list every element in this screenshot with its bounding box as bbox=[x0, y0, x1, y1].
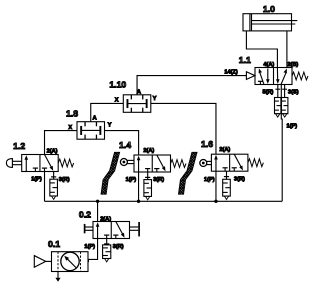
valve 1.6 lever (hatched) bbox=[178, 152, 197, 194]
service unit 0.1 condensate drain bbox=[57, 272, 59, 278]
wire 1.10 Y to valve 1.6 2(A) bbox=[151, 103, 216, 154]
valve 1.1 right-box path 4-5 bbox=[276, 68, 278, 82]
svg-text:3(R): 3(R) bbox=[153, 177, 164, 183]
two-pressure valve 1.10 shuttle piston bbox=[127, 103, 146, 105]
svg-text:1(P): 1(P) bbox=[287, 124, 298, 130]
svg-text:2(A): 2(A) bbox=[100, 217, 111, 223]
valve 1.6 left-box blocked port bbox=[224, 168, 226, 171]
valve 1.2 body bbox=[22, 155, 59, 172]
svg-text:1(P): 1(P) bbox=[126, 177, 137, 183]
valve 1.6 left-box flow arrow bbox=[215, 157, 217, 171]
valve 1.1 pilot 14(Z) bbox=[246, 72, 255, 80]
valve 1.2 right-box exhaust path bbox=[45, 155, 52, 168]
svg-text:3(R): 3(R) bbox=[113, 244, 124, 250]
cylinder 1.0 piston bbox=[249, 14, 251, 31]
svg-text:Y: Y bbox=[108, 122, 112, 128]
silencer valve 1.4 bbox=[147, 172, 149, 180]
silencer 5(R) bbox=[275, 98, 281, 114]
svg-text:1.0: 1.0 bbox=[263, 4, 275, 14]
wire 1.8 A to 1.10 X bbox=[91, 103, 124, 121]
valve 1.1 left-box blocked port 5 bbox=[259, 81, 261, 84]
valve 1.2 return spring bbox=[58, 159, 73, 167]
valve 1.1 body bbox=[255, 68, 292, 85]
valve 1.1 return spring bbox=[292, 72, 308, 80]
two-pressure valve 1.8 valve seats bbox=[84, 122, 86, 127]
wire bottom supply rail bbox=[45, 200, 283, 202]
valve 1.1 left-box path 1-4 bbox=[260, 72, 264, 85]
valve 1.2 right-box blocked port bbox=[44, 168, 46, 171]
two-pressure valve 1.8 shuttle piston bbox=[81, 129, 100, 131]
wire 0.2 port 2(A) riser to rail bbox=[97, 201, 99, 221]
valve 1.6 right-box blocked port bbox=[233, 168, 235, 171]
wire supply to service unit bbox=[46, 260, 52, 262]
service unit 0.1 filter separator (dashed) bbox=[57, 252, 59, 272]
valve 1.4 right-box blocked port bbox=[156, 169, 158, 172]
svg-text:2(A): 2(A) bbox=[219, 147, 230, 153]
svg-text:4(A): 4(A) bbox=[263, 62, 274, 68]
svg-text:1.8: 1.8 bbox=[66, 108, 78, 118]
service unit 0.1 regulator gauge bbox=[61, 252, 79, 270]
valve 1.6 body bbox=[211, 154, 248, 171]
wire supply 1(P) down from valve 1.1 bbox=[280, 85, 283, 202]
valve 1.2 left-box flow arrow bbox=[25, 158, 27, 172]
wire cylinder cap-end to 1.1 port 4(A) bbox=[246, 31, 277, 68]
svg-text:2(A): 2(A) bbox=[143, 148, 154, 154]
junction rail / valve 0.2 bbox=[96, 200, 99, 203]
svg-text:3(S): 3(S) bbox=[288, 89, 299, 95]
wire 1.6 port 1(P) to rail bbox=[215, 171, 217, 201]
junction rail / valve 1.4 bbox=[137, 200, 140, 203]
silencer valve 0.2 bbox=[106, 239, 108, 245]
compressed air supply bbox=[34, 256, 45, 268]
valve 1.2 left-box blocked port bbox=[34, 168, 36, 171]
wire 1.2 port 2(A) riser to 1.8 X bbox=[45, 131, 77, 155]
svg-text:2(B): 2(B) bbox=[287, 62, 298, 68]
svg-text:Y: Y bbox=[153, 96, 157, 102]
two-pressure valve 1.8 body bbox=[77, 122, 105, 140]
valve 1.6 right-box exhaust path bbox=[234, 154, 241, 167]
valve 1.4 lever (hatched) bbox=[101, 152, 120, 194]
valve 0.2 right plunger bbox=[130, 226, 139, 228]
silencer 3(S) bbox=[282, 98, 288, 114]
wire 1.2 port 1(P) to rail bbox=[44, 172, 46, 202]
valve 0.2 body bbox=[93, 222, 130, 239]
valve 0.2 left-box flow arrow bbox=[97, 225, 99, 239]
svg-text:1(P): 1(P) bbox=[204, 177, 215, 183]
svg-text:0.2: 0.2 bbox=[79, 209, 91, 219]
svg-text:3(R): 3(R) bbox=[59, 177, 70, 183]
silencer valve 1.2 bbox=[53, 172, 55, 180]
svg-text:1.6: 1.6 bbox=[201, 139, 213, 149]
valve 1.4 right-box exhaust path bbox=[157, 155, 164, 168]
svg-text:1.10: 1.10 bbox=[109, 80, 126, 90]
svg-text:1.4: 1.4 bbox=[119, 140, 131, 150]
valve 1.4 return spring bbox=[171, 160, 187, 168]
wire 1.8 Y to valve 1.4 2(A) bbox=[105, 131, 139, 155]
svg-text:X: X bbox=[68, 125, 72, 131]
wire 1.4 port 1(P) to rail bbox=[138, 172, 140, 201]
svg-text:1.2: 1.2 bbox=[13, 141, 25, 151]
valve 0.2 left plunger bbox=[85, 226, 93, 228]
valve 1.4 left-box blocked port bbox=[147, 169, 149, 172]
wire 1.1 port 5(R) to silencer bbox=[277, 85, 279, 98]
svg-text:5(R): 5(R) bbox=[263, 89, 274, 95]
cylinder 1.0 piston rod bbox=[252, 20, 298, 22]
junction rail / valve 1.6 bbox=[214, 200, 217, 203]
valve 0.2 right-box blocked port bbox=[115, 235, 117, 238]
svg-text:14(Z): 14(Z) bbox=[224, 70, 238, 76]
svg-text:1.1: 1.1 bbox=[239, 55, 251, 65]
svg-text:1(P): 1(P) bbox=[84, 244, 95, 250]
wire cylinder rod-end to 1.1 port 2(B) bbox=[286, 31, 288, 68]
valve 1.6 roller actuator bbox=[200, 160, 207, 167]
wire 0.2 port 1(P) to service unit 0.1 bbox=[88, 239, 98, 262]
svg-text:1(P): 1(P) bbox=[31, 177, 42, 183]
silencer valve 1.6 bbox=[225, 171, 227, 179]
valve 0.2 left-box blocked port bbox=[106, 235, 108, 238]
valve 1.1 right-box path 1-2 bbox=[281, 72, 286, 84]
valve 1.4 left-box flow arrow bbox=[138, 158, 140, 172]
valve 1.6 return spring bbox=[248, 159, 264, 167]
cylinder 1.0 body bbox=[243, 14, 292, 31]
svg-text:2(A): 2(A) bbox=[47, 148, 58, 154]
wire 1.10 A to pilot 14(Z) of valve 1.1 bbox=[137, 76, 246, 95]
valve 0.2 right-box exhaust path bbox=[116, 222, 123, 235]
valve 1.4 body bbox=[134, 155, 171, 172]
svg-text:3(R): 3(R) bbox=[234, 177, 245, 183]
svg-text:0.1: 0.1 bbox=[48, 239, 60, 249]
service unit 0.1 body bbox=[52, 252, 89, 272]
valve 1.1 left-box path 2-3 bbox=[267, 69, 269, 82]
valve 1.2 pushbutton actuator bbox=[12, 160, 21, 162]
svg-text:X: X bbox=[115, 98, 119, 104]
wire 1.1 port 3(S) to silencer bbox=[284, 85, 286, 98]
two-pressure valve 1.10 valve seats bbox=[130, 95, 132, 100]
valve 1.4 roller actuator bbox=[120, 159, 127, 166]
two-pressure valve 1.10 body bbox=[123, 95, 151, 113]
